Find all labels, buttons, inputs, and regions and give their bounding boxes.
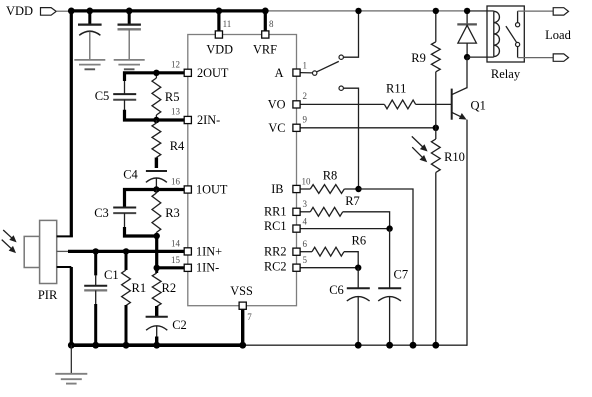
svg-text:VC: VC <box>268 121 285 135</box>
resistor R2 <box>152 268 176 307</box>
svg-text:3: 3 <box>303 199 308 209</box>
pin square pin 11 VDD <box>215 31 222 38</box>
svg-text:2: 2 <box>303 91 308 101</box>
wire pin16 1OUT to C3 (thick) <box>125 190 186 207</box>
wire Q1 emitter to bottom rail <box>466 120 468 346</box>
pin label 1IN- <box>196 261 219 275</box>
junction bottom rail at C2 <box>153 342 160 349</box>
capacitor C3 <box>94 206 136 220</box>
wire C3 to R3 junction (thick) <box>125 213 157 236</box>
pin label VDD <box>206 42 233 56</box>
svg-text:Q1: Q1 <box>471 98 486 112</box>
ground (below C9) <box>114 60 145 69</box>
wire pin5 RC2 <box>300 267 358 269</box>
pin label 1OUT <box>196 182 228 196</box>
junction VC/R9/R10 <box>433 125 439 131</box>
pin number 4 <box>303 216 308 226</box>
svg-text:1: 1 <box>303 61 308 71</box>
junction top rail / VDD leg <box>68 7 75 14</box>
svg-text:13: 13 <box>171 107 181 117</box>
pin label RR2 <box>264 245 287 259</box>
svg-text:4: 4 <box>303 216 308 226</box>
svg-text:C1: C1 <box>104 268 119 282</box>
pin number 13 <box>171 107 181 117</box>
pin label RC1 <box>264 219 287 233</box>
resistor R11 <box>384 81 415 109</box>
op-amp/controller IC U1 outline <box>188 35 297 306</box>
svg-text:R6: R6 <box>352 233 367 247</box>
pin label IB <box>271 182 283 196</box>
wire pin 8 VRF stub <box>264 11 267 31</box>
svg-text:R1: R1 <box>132 281 147 295</box>
wire PIR source to 1IN+ (pin14, thick) <box>57 250 185 252</box>
transistor Q1 (NPN) <box>452 57 486 120</box>
diode D1 (flyback) <box>457 11 477 57</box>
junction IB drop/bottom rail <box>410 342 417 349</box>
svg-text:R3: R3 <box>165 206 180 220</box>
svg-text:R8: R8 <box>323 169 338 183</box>
svg-text:R2: R2 <box>162 281 177 295</box>
svg-text:VSS: VSS <box>230 284 253 298</box>
capacitor C7 (polarized) <box>378 229 408 346</box>
wire lower contact down to IB node <box>343 88 358 189</box>
wire R6 to RC2 node <box>344 252 358 268</box>
svg-text:2IN-: 2IN- <box>197 113 220 127</box>
wire R4 to C4 (thick stub) <box>155 158 158 169</box>
wire C5 to pin13 2IN- (thick) <box>125 100 186 120</box>
svg-text:R7: R7 <box>345 194 360 208</box>
svg-text:Relay: Relay <box>491 67 521 81</box>
junction diode/coil/collector <box>464 54 470 60</box>
wire pin 11 VDD stub <box>217 11 220 31</box>
pin square pin 15 1IN- <box>184 264 191 271</box>
pin square pin 2 VO <box>293 101 300 108</box>
svg-text:RR2: RR2 <box>264 245 287 259</box>
junction top rail / pin 11 <box>216 7 223 14</box>
svg-text:15: 15 <box>171 255 181 265</box>
pin square pin 12 2OUT <box>184 69 191 76</box>
svg-text:C3: C3 <box>94 206 109 220</box>
pin square pin 9 VC <box>293 124 300 131</box>
capacitor C9 (VDD decoupling) <box>118 11 141 60</box>
junction top rail / C8 <box>86 7 93 14</box>
junction pin12/R5 <box>153 70 159 76</box>
pin number 1 <box>303 61 308 71</box>
resistor R4 <box>152 120 185 158</box>
capacitor C5 <box>95 89 136 103</box>
svg-text:A: A <box>275 66 284 80</box>
svg-text:C6: C6 <box>329 283 344 297</box>
junction pin16/C4 <box>153 186 159 192</box>
capacitor C8 (polarized, VDD decoupling) <box>78 11 102 60</box>
wire PIR ground leg <box>57 267 72 345</box>
connector Load terminal bottom <box>553 54 568 61</box>
wire ground bottom rail (thick) <box>71 343 242 347</box>
pin label RC2 <box>264 260 287 274</box>
junction VDD rail / diode <box>464 8 470 14</box>
pin square pin 16 1OUT <box>184 186 191 193</box>
junction VDD rail / R9 <box>433 8 439 14</box>
switch S1 on pin A <box>300 55 343 75</box>
junction RC1/R7/C7 <box>386 225 392 231</box>
relay coil <box>494 11 500 56</box>
junction C6/bottom rail <box>355 342 362 349</box>
wire pin12 2OUT to C5 (thick) <box>125 73 186 94</box>
svg-text:2OUT: 2OUT <box>197 66 229 80</box>
svg-text:12: 12 <box>171 60 180 70</box>
svg-text:C4: C4 <box>123 168 138 182</box>
capacitor C4 (polarized) <box>123 168 167 190</box>
svg-text:1IN+: 1IN+ <box>196 244 222 258</box>
resistor R9 <box>411 11 440 128</box>
pin number 2 <box>303 91 308 101</box>
pin square pin 10 IB <box>293 185 300 192</box>
pin label VO <box>268 97 286 111</box>
pin label VRF <box>253 42 277 56</box>
svg-text:PIR: PIR <box>38 288 58 302</box>
svg-text:R10: R10 <box>444 150 465 164</box>
pin number 8 <box>269 19 274 29</box>
svg-text:VDD: VDD <box>6 4 33 18</box>
svg-text:C7: C7 <box>394 267 409 281</box>
svg-text:10: 10 <box>302 176 312 186</box>
junction R1 top <box>123 248 129 254</box>
pin label 2OUT <box>197 66 229 80</box>
wire VDD left vertical rail <box>70 11 73 237</box>
pin square pin 6 RR2 <box>293 248 300 255</box>
relay switch contacts <box>506 11 520 58</box>
junction bottom rail at R1 <box>123 342 130 349</box>
junction top rail / pin 8 <box>262 7 269 14</box>
junction C1 top <box>93 248 99 254</box>
svg-text:C2: C2 <box>172 318 187 332</box>
resistor R6 <box>300 233 366 256</box>
pin square pin 4 RC1 <box>293 225 300 232</box>
resistor R1 <box>122 251 146 345</box>
junction RC2/R6/C6 <box>355 265 361 271</box>
svg-text:8: 8 <box>269 19 274 29</box>
pin label 2IN- <box>197 113 220 127</box>
pin label RR1 <box>264 205 287 219</box>
junction pin13/R5/R4 <box>153 117 159 123</box>
svg-text:7: 7 <box>247 312 252 322</box>
svg-text:RC2: RC2 <box>264 260 287 274</box>
pin number 6 <box>303 239 308 249</box>
junction VSS/bottom rail <box>239 342 246 349</box>
pin square pin 13 2IN- <box>184 116 191 123</box>
svg-text:IB: IB <box>271 182 283 196</box>
wire IB node to right drop <box>359 189 414 345</box>
pin number 14 <box>171 238 181 248</box>
pin label VSS <box>230 284 253 298</box>
svg-text:VRF: VRF <box>253 42 277 56</box>
svg-text:VDD: VDD <box>206 42 233 56</box>
connector Load terminal top <box>553 8 568 15</box>
svg-text:5: 5 <box>303 255 308 265</box>
junction R10/bottom rail <box>432 342 439 349</box>
pin square pin 5 RC2 <box>293 264 300 271</box>
pin number 5 <box>303 255 308 265</box>
pin square pin 14 1IN+ <box>184 248 191 255</box>
photoresistor R10 <box>431 128 465 345</box>
svg-text:RR1: RR1 <box>264 205 287 219</box>
pin number 9 <box>303 115 308 125</box>
pin number 3 <box>303 199 308 209</box>
capacitor C2 (polarized) <box>146 306 187 345</box>
node VDD input label <box>6 4 33 18</box>
wire coil bottom to diode junction <box>467 56 494 58</box>
pin number 16 <box>171 176 181 186</box>
pin label A <box>275 66 284 80</box>
wire VDD top rail (thick) <box>71 9 265 12</box>
junction IB node <box>355 186 361 192</box>
ground (below C8) <box>74 60 105 69</box>
wire pin2 VO to R11 <box>300 103 384 105</box>
switch S2 lower contact (open) <box>339 86 343 90</box>
pin number 7 <box>247 312 252 322</box>
connector VDD terminal <box>41 8 72 16</box>
capacitor C1 <box>84 251 118 345</box>
wire relay to load terminals <box>518 11 554 58</box>
pin square pin 3 RR1 <box>293 208 300 215</box>
capacitor C6 (polarized) <box>329 268 370 346</box>
svg-text:9: 9 <box>303 115 308 125</box>
wire R7 to RC1 node <box>343 212 390 229</box>
wire ground bottom rail (thin right section) <box>243 344 468 346</box>
wire PIR drain to VDD rail <box>57 235 73 237</box>
resistor R7 <box>300 194 360 216</box>
photoresistor light arrows <box>412 136 428 162</box>
wire pin4 RC1 <box>300 228 390 230</box>
svg-text:11: 11 <box>223 19 232 29</box>
svg-text:R4: R4 <box>170 139 185 153</box>
node Load label <box>545 28 571 42</box>
wire switch fixed contact to VDD rail <box>343 11 358 57</box>
svg-text:16: 16 <box>171 176 181 186</box>
svg-text:C5: C5 <box>95 89 110 103</box>
svg-text:14: 14 <box>171 238 181 248</box>
pin square pin 7 VSS <box>239 302 246 309</box>
junction bottom rail at VDD leg <box>68 342 75 349</box>
svg-text:R5: R5 <box>165 90 180 104</box>
pin square pin 1 A <box>293 69 300 76</box>
wire R11 to Q1 base <box>416 103 451 105</box>
relay K1 box <box>487 6 524 81</box>
pin number 15 <box>171 255 181 265</box>
pin number 10 <box>302 176 312 186</box>
resistor R3 <box>152 190 180 237</box>
PIR sensor body <box>24 220 58 302</box>
junction VDD rail / switch <box>355 8 361 14</box>
svg-text:RC1: RC1 <box>264 219 287 233</box>
junction bottom rail at C1 <box>92 342 99 349</box>
junction pin15 node <box>154 265 160 271</box>
pin square pin 8 VRF <box>262 31 269 38</box>
svg-text:1IN-: 1IN- <box>196 261 219 275</box>
junction top rail / C9 <box>126 7 133 14</box>
junction C3/R3 node <box>154 233 160 239</box>
pin number 12 <box>171 60 180 70</box>
svg-text:VO: VO <box>268 97 286 111</box>
pin label VC <box>268 121 285 135</box>
wire pin9 VC to R9/R10 node <box>300 127 436 129</box>
svg-text:R11: R11 <box>386 81 406 95</box>
resistor R5 <box>152 73 179 120</box>
svg-text:R9: R9 <box>411 51 426 65</box>
wire VDD top rail (thin, right section) <box>265 10 494 12</box>
wire pin15 1IN- (thick) <box>157 266 185 269</box>
svg-text:6: 6 <box>303 239 308 249</box>
ground symbol (main) <box>55 345 87 383</box>
pin number 11 <box>223 19 232 29</box>
PIR incident light arrows <box>2 230 17 253</box>
svg-text:1OUT: 1OUT <box>196 182 228 196</box>
pin label 1IN+ <box>196 244 222 258</box>
junction C7/bottom rail <box>386 342 393 349</box>
wire R3 node down to pin15 node (thick) <box>155 236 158 268</box>
svg-text:Load: Load <box>545 28 571 42</box>
wire pin7 VSS stub (thick) <box>241 309 244 345</box>
resistor R8 <box>300 169 359 194</box>
